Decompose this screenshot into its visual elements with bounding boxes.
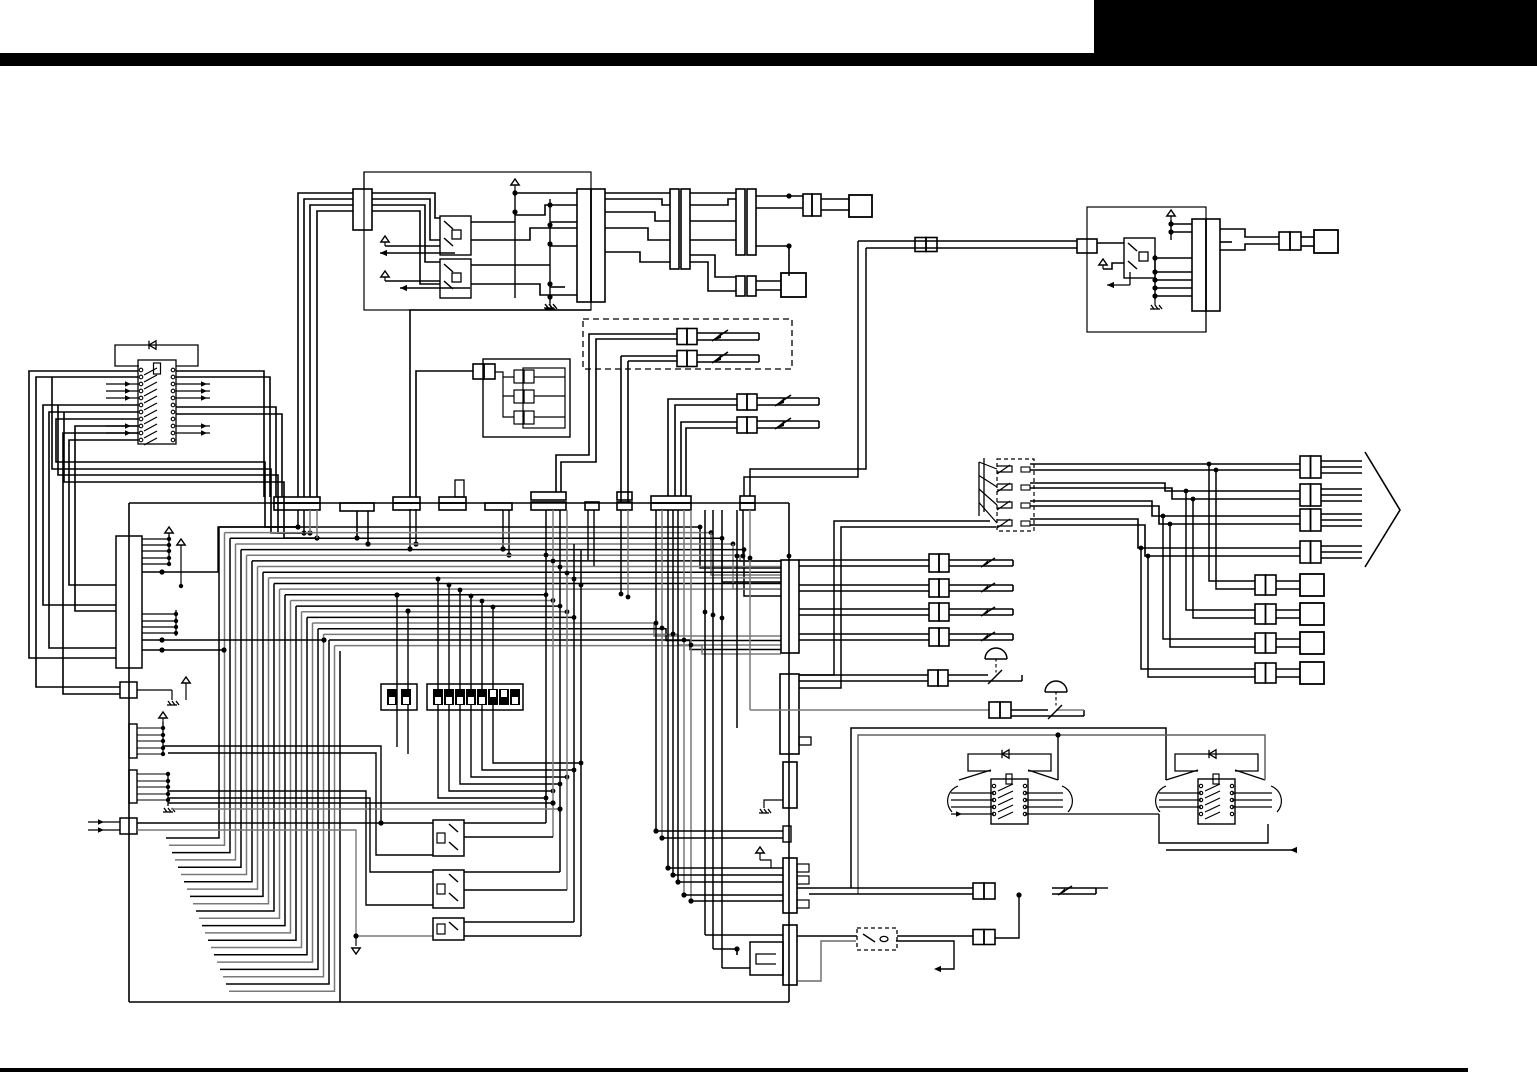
wire	[656, 830, 783, 832]
wire	[1220, 229, 1279, 237]
stub connector	[783, 826, 791, 842]
bus connector K7	[617, 492, 632, 500]
bar segment V3	[783, 762, 797, 808]
tab	[455, 480, 464, 497]
relay K2	[440, 259, 471, 298]
bar segment V4	[783, 858, 797, 913]
wire	[691, 900, 783, 902]
connector J4	[736, 189, 745, 255]
wire	[169, 533, 225, 846]
wire	[464, 921, 574, 923]
wire	[193, 578, 269, 904]
wire	[178, 550, 241, 868]
wire	[1321, 460, 1362, 462]
wire riser	[627, 361, 629, 502]
wire	[184, 561, 252, 882]
edge box E1	[120, 682, 137, 698]
wire	[1155, 287, 1192, 289]
junction bar V2	[780, 674, 799, 754]
fuse circuit row 1	[799, 559, 929, 561]
wire	[199, 589, 280, 918]
connector R3	[1300, 509, 1311, 531]
long wire	[168, 802, 553, 804]
terminal box TB4	[1300, 662, 1324, 684]
wire	[202, 595, 285, 926]
wire leg	[415, 509, 417, 544]
wire leg	[471, 596, 567, 777]
connector J2	[577, 189, 591, 302]
power triangle	[1099, 259, 1107, 265]
wire	[605, 212, 670, 221]
wire	[690, 220, 736, 222]
drop wire	[545, 510, 547, 823]
wire	[464, 871, 560, 873]
long wire	[168, 753, 433, 855]
wire	[303, 510, 305, 533]
wire	[1155, 295, 1192, 297]
bus connector K8	[651, 496, 691, 503]
wire	[756, 195, 803, 197]
connector J1	[353, 189, 372, 230]
relay K6	[433, 918, 464, 940]
wire	[356, 533, 358, 538]
wire	[736, 510, 738, 728]
wire	[705, 934, 783, 936]
relay K1	[440, 216, 471, 255]
wire	[677, 510, 679, 882]
wire	[1220, 241, 1232, 243]
ground	[171, 690, 173, 700]
tab header T1	[129, 724, 137, 758]
connector J8	[1077, 239, 1097, 253]
wire leg	[460, 590, 560, 784]
contact rows	[139, 368, 143, 372]
relay K4	[433, 820, 464, 856]
wire	[821, 209, 849, 211]
wire	[166, 527, 219, 838]
bus legs K6	[587, 510, 589, 560]
wire	[1155, 257, 1192, 259]
wire leg	[407, 611, 409, 754]
wire riser	[561, 339, 602, 492]
dashed contact box	[997, 459, 1034, 531]
wire	[799, 521, 990, 675]
wire	[142, 649, 224, 651]
connector J6	[736, 276, 745, 296]
input arrows	[106, 383, 138, 385]
power triangle	[159, 712, 167, 718]
bus connector K2	[340, 503, 374, 511]
junction bar V1	[781, 560, 799, 653]
wire	[667, 510, 669, 868]
wire leg	[409, 509, 411, 549]
wire	[515, 192, 577, 194]
ground	[163, 808, 175, 812]
wire	[464, 822, 546, 824]
wire	[190, 572, 263, 896]
connector J9	[1192, 219, 1206, 311]
wire	[1301, 236, 1314, 238]
cable marks T2	[1159, 792, 1201, 794]
down triangle	[355, 936, 357, 946]
wire	[205, 600, 291, 932]
wire	[722, 967, 750, 969]
wire	[605, 252, 670, 262]
wire	[605, 228, 670, 240]
wire	[704, 510, 706, 935]
wire riser	[620, 356, 622, 502]
drop wire	[566, 510, 568, 890]
power triangle	[381, 271, 389, 277]
wire	[627, 510, 629, 597]
component box C1	[483, 359, 570, 437]
wire loop	[176, 414, 282, 497]
wire leg	[482, 601, 574, 770]
wire	[756, 280, 781, 282]
wire branch	[1186, 491, 1255, 610]
wire branch	[1209, 464, 1255, 581]
wire	[515, 205, 577, 215]
wire	[137, 830, 433, 936]
wire	[363, 172, 365, 190]
inner frame	[523, 368, 565, 428]
node	[1154, 255, 1156, 300]
wire	[137, 822, 433, 824]
terminal box D1	[849, 195, 872, 217]
fuse circuit row 3	[799, 608, 929, 610]
contact a	[514, 370, 524, 383]
long wire	[171, 808, 560, 810]
wire	[229, 646, 335, 992]
wire loop	[64, 412, 317, 538]
wire	[721, 510, 723, 968]
contact pin	[1021, 503, 1030, 508]
contact pin	[1021, 521, 1030, 526]
wire	[298, 193, 353, 497]
dashed enclosure	[583, 319, 792, 369]
diode loop box	[115, 345, 198, 366]
wire branch	[1148, 556, 1255, 677]
wire	[217, 623, 313, 962]
wire	[1276, 668, 1300, 670]
wire	[503, 396, 514, 417]
wire	[464, 889, 567, 891]
wire	[339, 651, 341, 1002]
wire	[756, 289, 781, 291]
wire loop	[58, 405, 310, 533]
arrow wire	[1166, 849, 1296, 851]
power triangle	[381, 236, 389, 242]
fuse row 3	[668, 399, 737, 496]
relay module box A	[364, 172, 591, 310]
big frame left edge	[128, 503, 130, 1002]
wire	[995, 895, 1019, 938]
dip switch block 2	[427, 684, 523, 710]
wire	[742, 510, 744, 556]
wire	[690, 510, 692, 901]
wire	[316, 510, 318, 538]
wire	[1276, 638, 1300, 640]
wire	[495, 372, 514, 377]
loop under T2	[1159, 814, 1268, 843]
wire	[372, 205, 440, 262]
wire	[175, 544, 236, 860]
wire	[226, 640, 329, 984]
wire loop	[176, 407, 276, 497]
wire	[690, 192, 736, 194]
wire	[605, 192, 670, 194]
wire	[534, 376, 565, 378]
wire loop	[56, 419, 298, 527]
wire	[1155, 279, 1192, 281]
wire riser	[556, 334, 595, 492]
connector B2	[1255, 604, 1266, 624]
wire	[223, 634, 324, 976]
wire	[356, 511, 358, 533]
hook wire	[798, 941, 856, 981]
arrow row T1	[951, 813, 994, 815]
arrow	[1107, 284, 1130, 286]
wire	[214, 617, 307, 954]
stub wires lower	[142, 613, 176, 615]
wire	[1220, 244, 1279, 250]
wire	[142, 639, 324, 641]
wire	[690, 199, 736, 205]
wire	[821, 198, 849, 200]
bottom rule	[0, 1068, 1468, 1072]
wire	[1321, 513, 1362, 515]
wire loop	[75, 426, 138, 611]
wire pair row 2	[1030, 483, 1300, 491]
bus connector K9	[740, 496, 755, 503]
connector J13	[973, 930, 984, 945]
wire loop	[69, 440, 138, 585]
wire	[756, 207, 803, 209]
relay module box B	[1087, 207, 1206, 332]
wire	[713, 949, 737, 955]
feed wire W2	[858, 735, 1265, 894]
wire branch	[1216, 470, 1255, 589]
wire leg	[449, 585, 553, 791]
connector J5	[803, 194, 812, 216]
wire branch	[1163, 516, 1255, 639]
wire	[712, 510, 714, 949]
wire	[142, 527, 298, 572]
wire loop	[63, 433, 138, 694]
wire	[683, 510, 685, 895]
arrow	[400, 287, 470, 289]
wire	[310, 205, 353, 497]
wire	[416, 371, 473, 497]
wire	[1096, 887, 1108, 889]
wire	[690, 239, 736, 241]
wire	[208, 606, 296, 940]
wire	[797, 935, 857, 937]
wire	[464, 836, 553, 838]
wire	[172, 538, 230, 852]
contact pin	[1021, 467, 1030, 472]
wire	[749, 510, 751, 710]
terminal box D3	[1314, 230, 1338, 253]
wire leg	[493, 607, 581, 763]
title block bar	[0, 53, 1537, 66]
output arrows	[176, 383, 210, 385]
relay K3	[1124, 238, 1155, 278]
wire	[385, 245, 440, 247]
wire	[367, 511, 369, 544]
wire	[410, 310, 591, 497]
dip switch block 1	[381, 684, 417, 710]
wire	[620, 510, 622, 594]
connector J12	[973, 883, 984, 899]
wire leg	[396, 595, 398, 747]
drop wire	[552, 510, 554, 837]
drop wire	[559, 510, 561, 872]
wire loop	[176, 377, 270, 497]
bell circuit row 6	[750, 709, 989, 711]
wire	[297, 510, 299, 527]
fuse row 1	[595, 333, 677, 335]
connector R1	[1300, 456, 1311, 478]
bus connector K4	[439, 497, 466, 503]
wire loop	[49, 412, 138, 648]
wire	[668, 867, 783, 869]
diode loop	[968, 754, 1051, 771]
wire	[372, 193, 440, 218]
bus connector K3	[393, 497, 420, 503]
collector	[168, 535, 170, 566]
wire	[756, 246, 789, 276]
contact switch	[997, 466, 1012, 472]
tab header T2	[129, 770, 137, 803]
contact pin	[1021, 485, 1030, 490]
wire	[550, 221, 577, 223]
tab on V2	[799, 737, 811, 745]
motor block M1	[783, 925, 797, 985]
wire	[662, 837, 783, 839]
fuse circuit row 2	[799, 584, 929, 586]
arrow in	[88, 829, 120, 831]
switch block S1	[138, 360, 176, 444]
wire	[661, 510, 663, 838]
connector J11	[473, 364, 484, 379]
bell circuit row 5	[799, 674, 928, 676]
terminal box TB2	[1300, 603, 1324, 625]
ground	[764, 800, 783, 808]
winding block	[1166, 770, 1198, 780]
arrow	[380, 252, 455, 254]
wire	[1276, 580, 1300, 582]
connector J3	[670, 189, 679, 269]
wire	[1171, 231, 1192, 233]
wire leg	[438, 579, 546, 798]
collector	[167, 772, 169, 806]
wire	[471, 284, 577, 295]
wire	[385, 280, 440, 282]
wire	[550, 245, 577, 247]
wire	[1321, 488, 1362, 490]
wire	[1057, 735, 1059, 780]
connector J10	[1279, 232, 1290, 250]
wire	[372, 199, 440, 240]
wire	[1276, 609, 1300, 611]
wire	[672, 510, 674, 875]
collector	[162, 722, 164, 756]
wire	[464, 935, 581, 937]
wire	[799, 527, 996, 688]
node	[1170, 220, 1172, 240]
arrow in	[88, 821, 120, 823]
wire	[897, 935, 973, 937]
fuse	[1052, 887, 1096, 889]
cable marks T1 left	[951, 792, 994, 794]
wire loop	[176, 371, 264, 497]
wire	[605, 199, 670, 205]
wire	[690, 255, 736, 277]
wire	[220, 629, 318, 970]
wire	[471, 221, 515, 223]
wire loop	[29, 371, 138, 658]
wire	[1103, 263, 1124, 269]
wire	[684, 894, 783, 896]
connector R4	[1300, 541, 1311, 563]
wire	[317, 211, 353, 497]
drop wire	[573, 544, 575, 922]
wire pair row 1	[1030, 463, 1300, 465]
contact c	[514, 411, 524, 424]
relay K5	[433, 870, 464, 908]
long wire	[163, 746, 381, 823]
wire branch	[1170, 524, 1255, 647]
wire	[196, 584, 274, 912]
wire branch	[1193, 499, 1255, 618]
wire	[211, 612, 302, 948]
main bus	[129, 502, 789, 504]
power triangle	[165, 527, 173, 533]
wire	[1321, 545, 1362, 547]
wire	[690, 262, 736, 291]
chevron arrow	[1365, 452, 1400, 567]
wire	[1097, 242, 1124, 244]
power triangle	[182, 677, 190, 683]
big frame bottom	[129, 1001, 789, 1003]
connector B4	[1255, 663, 1266, 683]
edge connector P1	[116, 536, 142, 668]
wire riser pair	[744, 241, 858, 496]
long wire	[168, 798, 433, 872]
wire pair to module B	[858, 240, 1077, 242]
wire	[372, 211, 440, 284]
wire	[304, 199, 353, 497]
wire loop	[52, 377, 304, 533]
power triangle	[511, 179, 519, 185]
wire	[550, 286, 565, 288]
feed wire W1	[851, 728, 1166, 888]
wire loop	[43, 405, 138, 605]
wire	[678, 881, 783, 883]
power triangle	[756, 847, 764, 853]
wire	[1171, 223, 1192, 225]
fuse row 4	[681, 422, 737, 496]
contact switch	[997, 502, 1012, 508]
long wire	[168, 791, 433, 905]
wire branch	[1141, 548, 1255, 669]
wire	[181, 555, 247, 874]
stub wires	[142, 538, 169, 540]
connector B3	[1255, 633, 1266, 653]
contact switch	[997, 484, 1012, 490]
ground	[1154, 300, 1156, 305]
